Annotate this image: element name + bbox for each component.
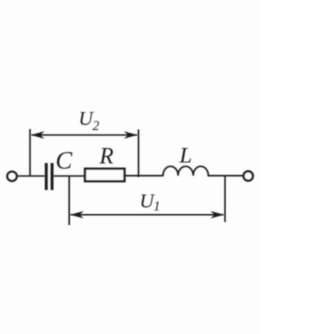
svg-text:2: 2 — [93, 118, 100, 133]
svg-text:L: L — [179, 142, 193, 167]
svg-text:C: C — [56, 148, 73, 175]
svg-text:1: 1 — [154, 199, 161, 214]
svg-text:R: R — [99, 144, 114, 169]
